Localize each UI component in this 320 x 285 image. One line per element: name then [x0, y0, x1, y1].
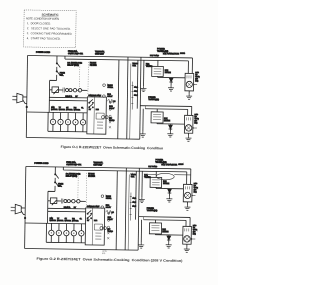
- svg-text:1. DOOR CLOSED.: 1. DOOR CLOSED.: [27, 21, 51, 25]
- svg-text:(E2): (E2): [102, 253, 106, 255]
- svg-text:NOTE: CONDITION OF OVEN: NOTE: CONDITION OF OVEN: [26, 16, 59, 20]
- svg-text:SCHEMATIC: SCHEMATIC: [42, 13, 60, 17]
- svg-text:4. START PAD TOUCHED.: 4. START PAD TOUCHED.: [27, 36, 61, 41]
- svg-text:2. SELECT ONE PAD TOUCHED.: 2. SELECT ONE PAD TOUCHED.: [27, 26, 71, 31]
- svg-text:3. COOKING TIME PROGRAMMED.: 3. COOKING TIME PROGRAMMED.: [27, 31, 73, 36]
